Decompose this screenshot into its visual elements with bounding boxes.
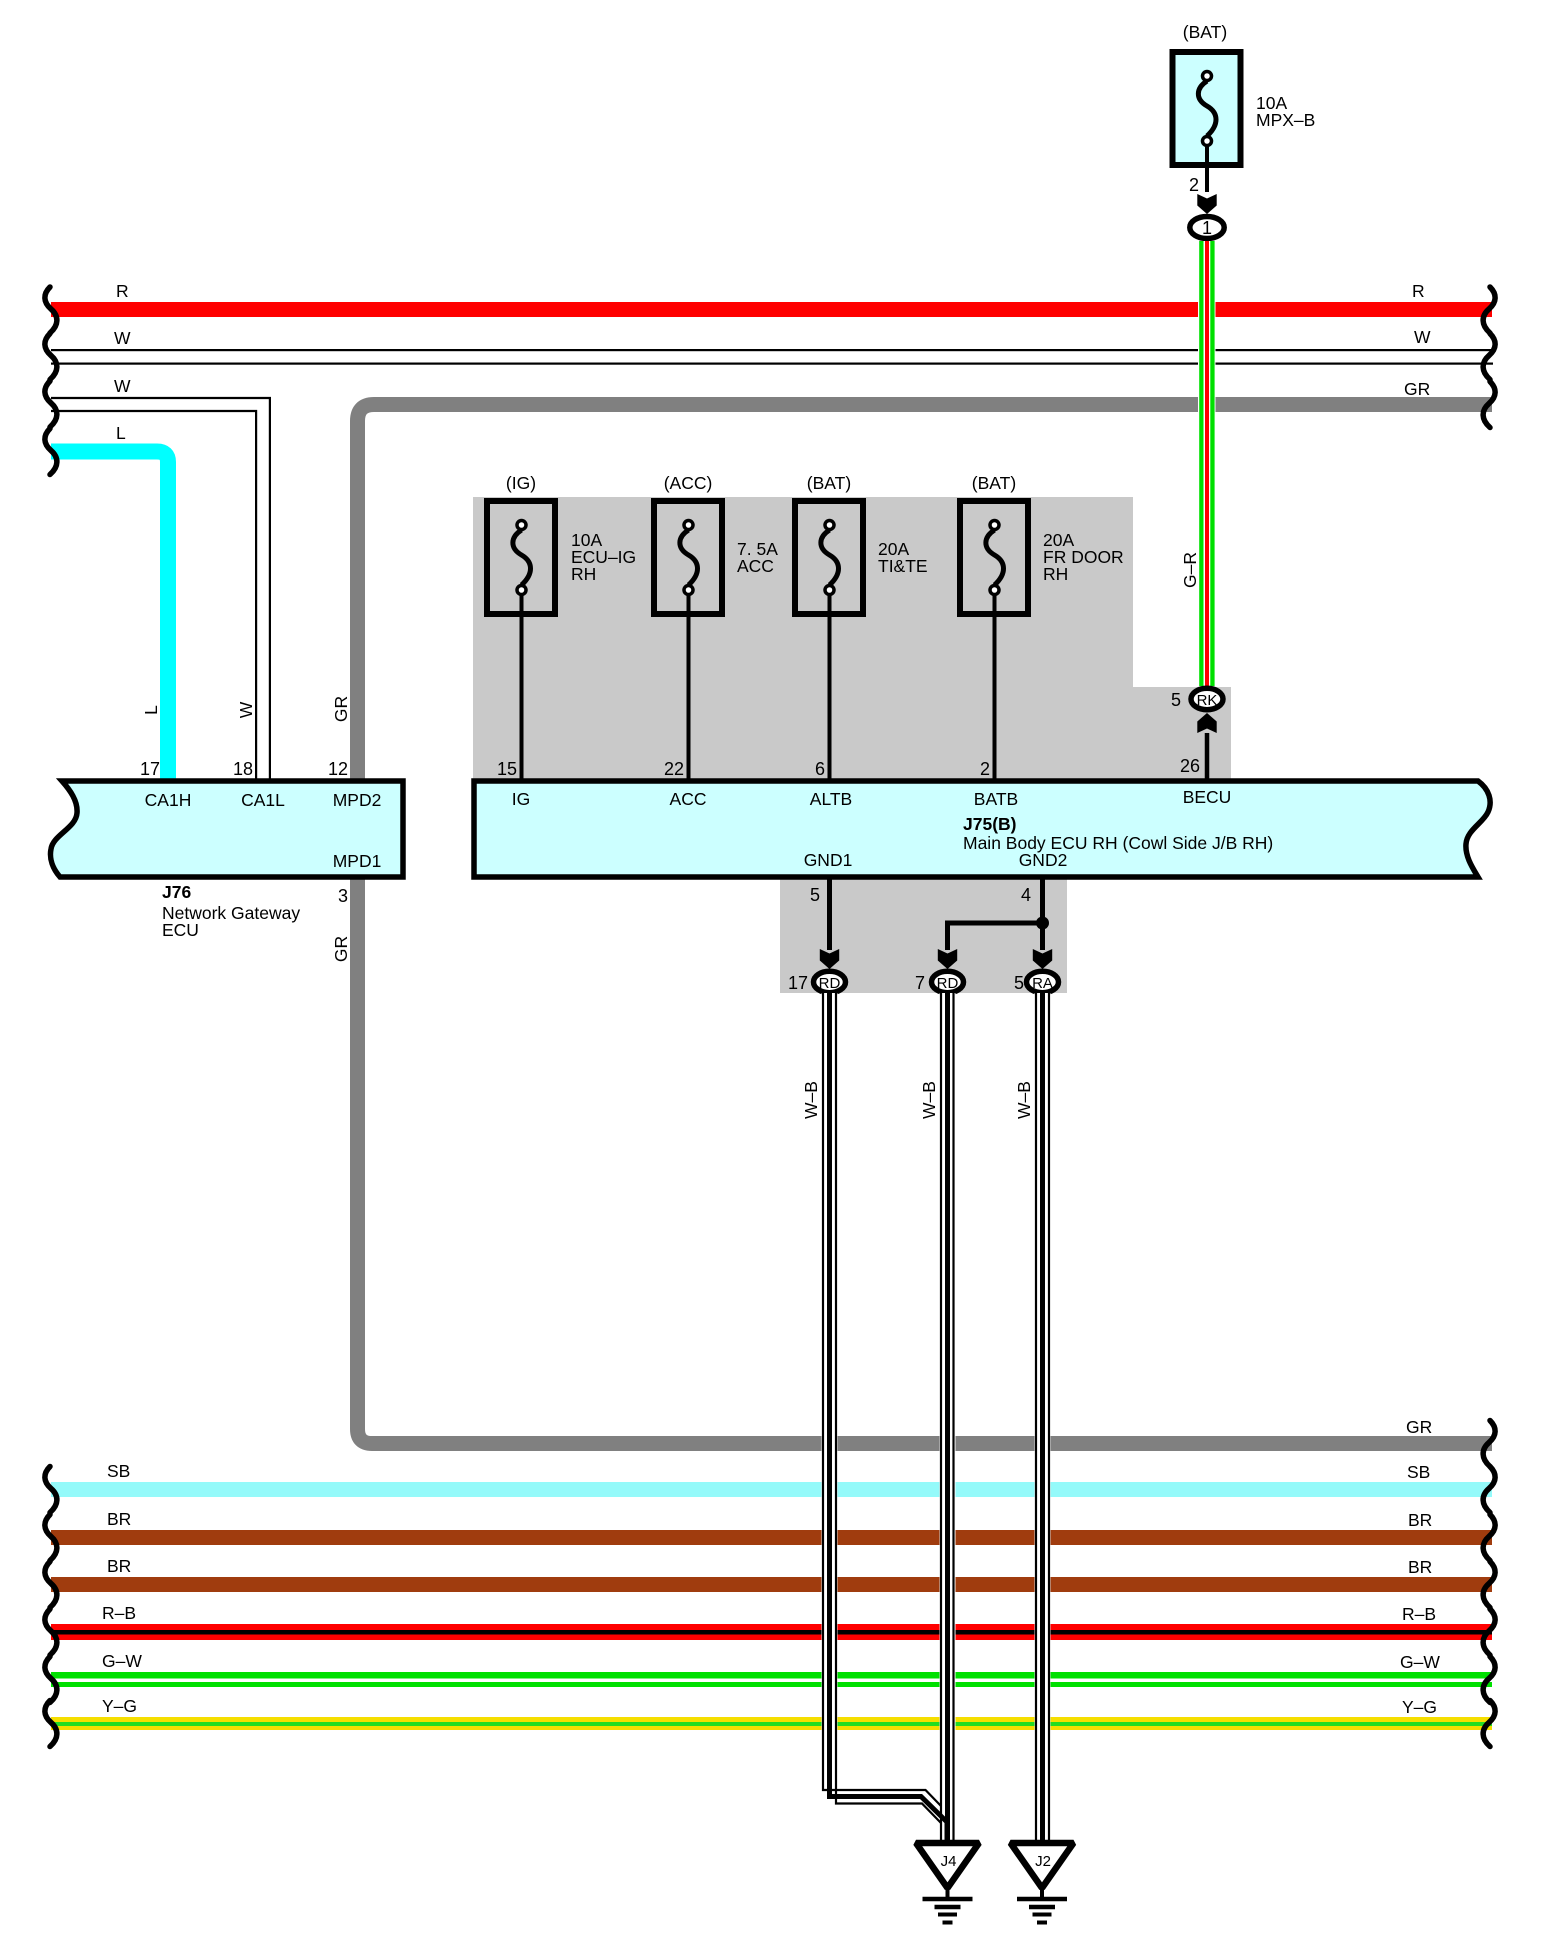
break mark wire BR1 right: [1483, 1515, 1495, 1561]
break mark wire BR1 left: [45, 1515, 57, 1561]
junction block shading (cowl side J/B RH) upper: [473, 497, 1133, 781]
svg-text:CA1H: CA1H: [145, 790, 192, 810]
svg-text:5: 5: [810, 885, 820, 905]
svg-text:26: 26: [1180, 756, 1200, 776]
wire W-B from RD7 to J4 (white underlay): [940, 993, 956, 1843]
break mark wire W (CA1L) left: [45, 381, 57, 427]
svg-text:RD: RD: [819, 975, 841, 992]
break mark wire Y-G left: [45, 1701, 57, 1747]
fuse 20A FR DOOR RH (BAT): [960, 501, 1028, 614]
wire fuse TI&TE to pin 6: [828, 595, 832, 786]
wire Y-G bus: [51, 1717, 1492, 1730]
svg-text:BATB: BATB: [974, 789, 1018, 809]
arrow into connector 1: [1197, 194, 1216, 214]
junction block shading step right: [1133, 687, 1231, 781]
break mark wire R-B left: [45, 1609, 57, 1655]
svg-text:G–W: G–W: [1400, 1652, 1440, 1672]
break mark wire W right: [1483, 334, 1495, 380]
svg-text:SB: SB: [107, 1461, 130, 1481]
svg-text:W: W: [114, 376, 131, 396]
svg-text:Y–G: Y–G: [1402, 1697, 1437, 1717]
wire R horizontal bus: [51, 302, 1492, 317]
svg-text:7: 7: [915, 973, 925, 993]
svg-text:18: 18: [233, 759, 253, 779]
svg-text:RD: RD: [937, 975, 959, 992]
connector RD pin 17: [814, 971, 846, 992]
wire W-B from RD7 lines: [940, 993, 942, 1842]
svg-text:4: 4: [1021, 885, 1031, 905]
svg-text:ALTB: ALTB: [810, 789, 852, 809]
break mark wire GR lower right: [1483, 1421, 1495, 1467]
wire junction to RA 5: [1040, 926, 1045, 950]
svg-text:TI&TE: TI&TE: [878, 556, 928, 576]
svg-text:G–R: G–R: [1180, 552, 1200, 588]
svg-text:SB: SB: [1407, 1462, 1430, 1482]
connector RA pin 5: [1027, 971, 1059, 992]
svg-text:12: 12: [328, 759, 348, 779]
svg-text:CA1L: CA1L: [241, 790, 285, 810]
svg-text:17: 17: [140, 759, 160, 779]
break mark wire G-W right: [1483, 1657, 1495, 1703]
svg-text:R: R: [116, 281, 129, 301]
svg-text:J75(B): J75(B): [963, 814, 1017, 834]
svg-text:W–B: W–B: [919, 1081, 939, 1119]
wire L to CA1H: [51, 452, 168, 782]
svg-text:GND1: GND1: [804, 850, 853, 870]
svg-text:R–B: R–B: [102, 1603, 136, 1623]
svg-text:J2: J2: [1035, 1853, 1051, 1870]
svg-text:(IG): (IG): [506, 473, 536, 493]
wire GR horizontal bus to MPD2: [358, 405, 1493, 782]
svg-text:GR: GR: [1406, 1417, 1432, 1437]
svg-text:3: 3: [338, 886, 348, 906]
svg-text:W–B: W–B: [801, 1081, 821, 1119]
svg-text:GND2: GND2: [1019, 850, 1068, 870]
connector 1: [1190, 217, 1224, 239]
wire SB bus: [51, 1482, 1492, 1497]
break mark wire R right: [1483, 287, 1495, 333]
svg-text:BECU: BECU: [1183, 787, 1232, 807]
wire BECU pin 26: [1205, 733, 1210, 787]
fuse 10A ECU-IG RH (IG): [487, 501, 555, 614]
svg-text:IG: IG: [512, 789, 530, 809]
wire W-B from RD17 to J4 (white underlay): [830, 993, 948, 1843]
break mark wire BR2 left: [45, 1562, 57, 1608]
svg-text:RK: RK: [1197, 692, 1218, 709]
wire W-B from RA5 to J2 (white underlay): [1035, 993, 1051, 1843]
svg-text:BR: BR: [1408, 1557, 1432, 1577]
wire from fuse MPX-B pin 2: [1205, 146, 1209, 192]
svg-text:L: L: [116, 423, 126, 443]
break mark wire R left: [45, 287, 57, 333]
svg-text:W: W: [1414, 327, 1431, 347]
svg-text:MPD1: MPD1: [333, 851, 382, 871]
break mark wire GR right: [1483, 382, 1495, 428]
svg-text:1: 1: [1202, 218, 1212, 238]
svg-text:GR: GR: [331, 696, 351, 722]
svg-text:GR: GR: [1404, 379, 1430, 399]
wire BR bus 1: [51, 1530, 1492, 1545]
break mark wire R-B right: [1483, 1609, 1495, 1655]
wire W to CA1L (horizontal then down): [51, 398, 270, 781]
wire GR lower bus from MPD1: [358, 877, 1493, 1444]
svg-text:R: R: [1412, 281, 1425, 301]
svg-text:RH: RH: [1043, 564, 1068, 584]
svg-text:ACC: ACC: [670, 789, 707, 809]
wire fuse ACC to pin 22: [687, 595, 691, 786]
svg-text:6: 6: [815, 759, 825, 779]
wire W-B from RA5 lines: [1035, 993, 1037, 1843]
wire GND1 pin 5: [827, 877, 832, 950]
wire W horizontal bus (upper): [51, 349, 1493, 351]
svg-text:5: 5: [1171, 690, 1181, 710]
fuse 7.5A ACC (ACC): [654, 501, 722, 614]
wire R-B bus: [51, 1624, 1492, 1640]
svg-text:(BAT): (BAT): [1183, 22, 1227, 42]
svg-text:BR: BR: [1408, 1510, 1432, 1530]
arrow from BECU into RK: [1197, 713, 1216, 733]
svg-text:(ACC): (ACC): [664, 473, 713, 493]
wire branch to RD 7: [948, 923, 1041, 950]
break mark wire BR2 right: [1483, 1562, 1495, 1608]
svg-text:Y–G: Y–G: [102, 1696, 137, 1716]
break mark wire SB right: [1483, 1467, 1495, 1513]
wire fuse IG to pin 15: [520, 595, 524, 786]
svg-text:15: 15: [497, 759, 517, 779]
svg-text:J76: J76: [162, 882, 191, 902]
svg-text:J4: J4: [941, 1853, 957, 1870]
ECU J76 Network Gateway box: [50, 781, 403, 877]
junction node: [1036, 917, 1049, 930]
svg-text:BR: BR: [107, 1509, 131, 1529]
svg-text:ACC: ACC: [737, 556, 774, 576]
svg-text:RH: RH: [571, 564, 596, 584]
ground J4: [916, 1843, 979, 1923]
svg-text:2: 2: [1189, 175, 1199, 195]
svg-text:17: 17: [788, 973, 808, 993]
fuse 10A MPX-B (BAT): [1172, 52, 1242, 166]
svg-text:5: 5: [1014, 973, 1024, 993]
wire GND2 pin 4: [1040, 877, 1045, 920]
ECU J75(B) Main Body ECU RH box: [474, 781, 1490, 877]
svg-text:ECU: ECU: [162, 920, 199, 940]
svg-text:GR: GR: [331, 936, 351, 962]
fuse 20A TI&TE (BAT): [795, 501, 863, 614]
svg-text:22: 22: [664, 759, 684, 779]
break mark wire G-W left: [45, 1657, 57, 1703]
wire G-R vertical: [1198, 241, 1216, 686]
break mark wire Y-G right: [1483, 1701, 1495, 1747]
svg-text:L: L: [141, 705, 161, 715]
svg-text:G–W: G–W: [102, 1651, 142, 1671]
svg-text:W: W: [236, 701, 256, 718]
svg-text:Main Body ECU RH (Cowl Side J/: Main Body ECU RH (Cowl Side J/B RH): [963, 833, 1273, 853]
svg-text:(BAT): (BAT): [807, 473, 851, 493]
svg-text:MPX–B: MPX–B: [1256, 110, 1315, 130]
svg-text:MPD2: MPD2: [333, 790, 382, 810]
svg-text:R–B: R–B: [1402, 1604, 1436, 1624]
break mark wire L left: [45, 429, 57, 475]
junction block shading lower: [780, 876, 1067, 993]
connector RK pin 5: [1191, 688, 1223, 709]
svg-text:2: 2: [980, 759, 990, 779]
wire G-W bus: [51, 1672, 1492, 1687]
svg-text:W–B: W–B: [1014, 1081, 1034, 1119]
svg-text:(BAT): (BAT): [972, 473, 1016, 493]
svg-text:BR: BR: [107, 1556, 131, 1576]
wire fuse FR DOOR to pin 2: [993, 595, 997, 786]
break mark wire SB left: [45, 1467, 57, 1513]
ground J2: [1011, 1843, 1074, 1923]
wire W-B from RD17 lines: [823, 993, 941, 1806]
svg-text:RA: RA: [1032, 975, 1053, 992]
break mark wire W left: [45, 334, 57, 380]
svg-text:W: W: [114, 328, 131, 348]
wire BR bus 2: [51, 1577, 1492, 1592]
connector RD pin 7: [932, 971, 964, 992]
